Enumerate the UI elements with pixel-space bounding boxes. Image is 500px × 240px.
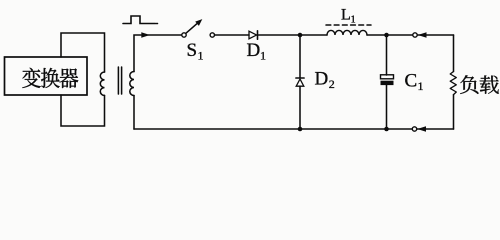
current arrow right xyxy=(141,32,150,38)
node junction D2 bottom xyxy=(298,127,303,132)
wire box-bottom to primary xyxy=(61,95,105,126)
pulse waveform symbol xyxy=(123,16,159,24)
wire bottom rail xyxy=(134,128,412,130)
label S1 xyxy=(187,40,204,63)
svg-text:1: 1 xyxy=(418,79,424,93)
label 负载 xyxy=(460,75,499,94)
converter box 变换器 xyxy=(5,57,88,95)
svg-text:S: S xyxy=(187,40,198,61)
wire D2 branch lower xyxy=(299,86,301,129)
capacitor C1 xyxy=(381,75,394,85)
current arrow left (bottom) xyxy=(417,126,426,132)
svg-text:2: 2 xyxy=(329,77,335,91)
wire D1 to L1 xyxy=(259,34,328,36)
transformer secondary winding xyxy=(130,72,134,96)
inductor L1 xyxy=(327,30,367,35)
label 变换器 xyxy=(22,68,78,88)
wire secondary bottom lead xyxy=(133,96,135,130)
wire C1 branch upper xyxy=(386,35,388,75)
node junction C1 bottom xyxy=(384,127,389,132)
load resistor zigzag xyxy=(450,72,456,95)
terminal circle top xyxy=(413,33,417,37)
wire right vertical upper xyxy=(453,35,455,72)
wire D2 branch upper xyxy=(299,35,301,78)
transformer primary winding xyxy=(100,72,104,95)
svg-text:1: 1 xyxy=(351,15,356,26)
wire terminal to right corner xyxy=(418,34,454,36)
diode D2 xyxy=(296,78,304,86)
svg-text:1: 1 xyxy=(198,49,204,63)
terminal circle bottom xyxy=(412,127,416,131)
wire bottom rail right xyxy=(417,128,454,130)
diode D1 xyxy=(249,31,258,39)
transformer core xyxy=(118,67,121,94)
wire box-top to primary xyxy=(61,33,105,72)
svg-text:L: L xyxy=(341,6,351,23)
label C1 xyxy=(405,71,424,94)
svg-text:C: C xyxy=(405,71,418,92)
current arrow left (top) xyxy=(418,32,427,38)
dashed line above L1 xyxy=(326,24,371,26)
switch S1 left contact xyxy=(182,33,186,37)
wire C1 branch lower xyxy=(386,85,388,129)
label L1 xyxy=(341,6,356,25)
wire L1 to terminal xyxy=(367,34,413,36)
wire top rail to S1 xyxy=(148,34,182,36)
switch S1 right contact xyxy=(210,33,214,37)
svg-text:1: 1 xyxy=(260,49,266,63)
node junction C1 top xyxy=(384,33,389,38)
wire right vertical lower xyxy=(453,95,455,129)
node junction D2 top xyxy=(298,33,303,38)
wire S1 to D1 xyxy=(215,34,250,36)
svg-text:D: D xyxy=(247,40,261,61)
switch S1 blade with arrowhead xyxy=(186,19,202,33)
wire secondary top lead xyxy=(134,35,141,72)
label D1 xyxy=(247,40,267,63)
label D2 xyxy=(315,68,335,91)
svg-text:D: D xyxy=(315,68,329,89)
